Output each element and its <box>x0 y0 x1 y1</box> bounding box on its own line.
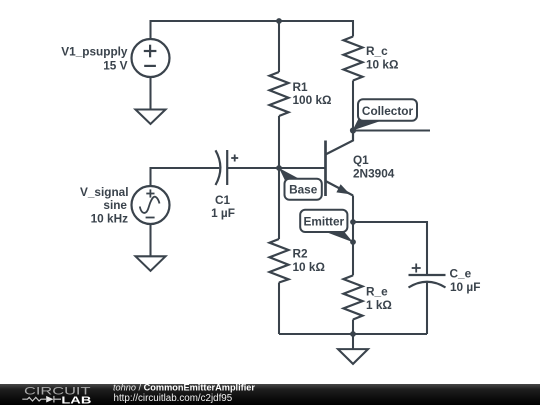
svg-text:100 kΩ: 100 kΩ <box>293 93 332 107</box>
svg-text:C1: C1 <box>215 193 231 207</box>
svg-text:R_c: R_c <box>366 44 388 58</box>
svg-text:Q1: Q1 <box>353 153 369 167</box>
svg-text:R_e: R_e <box>366 285 388 299</box>
svg-text:10 kΩ: 10 kΩ <box>366 58 398 72</box>
svg-text:V1_psupply: V1_psupply <box>61 45 128 59</box>
svg-text:tohno / CommonEmitterAmplifier: tohno / CommonEmitterAmplifier <box>113 383 255 393</box>
svg-text:1 kΩ: 1 kΩ <box>366 298 392 312</box>
svg-text:Emitter: Emitter <box>303 214 344 228</box>
svg-text:C_e: C_e <box>450 267 472 281</box>
svg-text:2N3904: 2N3904 <box>353 167 395 181</box>
svg-text:15 V: 15 V <box>103 59 127 73</box>
svg-text:R2: R2 <box>293 247 309 261</box>
svg-text:Collector: Collector <box>362 104 414 118</box>
svg-text:V_signal: V_signal <box>80 185 129 199</box>
svg-text:R1: R1 <box>293 80 309 94</box>
svg-text:sine: sine <box>103 198 127 212</box>
svg-text:http://circuitlab.com/c2jdf95: http://circuitlab.com/c2jdf95 <box>114 393 233 404</box>
svg-text:Base: Base <box>289 183 318 197</box>
svg-text:LAB: LAB <box>61 394 92 405</box>
svg-text:10 kΩ: 10 kΩ <box>293 260 325 274</box>
svg-text:1 µF: 1 µF <box>211 206 235 220</box>
svg-text:10 kHz: 10 kHz <box>91 212 128 226</box>
svg-text:10 µF: 10 µF <box>450 280 480 294</box>
